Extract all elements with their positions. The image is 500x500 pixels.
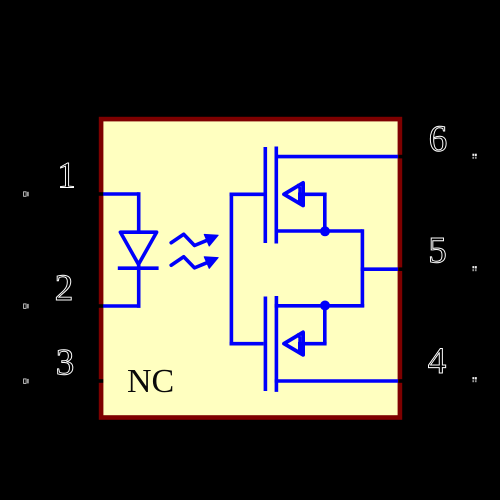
light emission arrow 2: [171, 257, 218, 269]
transistor Q2 channel plate: [275, 296, 279, 392]
wire Q2 drain: [275, 304, 365, 308]
pin3 stub black over border (NC): [97, 379, 103, 383]
transistor Q2 body arrowhead: [284, 332, 303, 355]
wire Q2 body shaft: [299, 342, 327, 346]
wire LED anode vertical: [137, 192, 141, 232]
wire Q1 body shaft: [299, 193, 327, 197]
pin1 stub black over border: [97, 192, 103, 196]
wire Q1 body vertical: [323, 193, 327, 232]
junction node Q2 drain: [320, 301, 330, 311]
wire mid vertical: [361, 229, 365, 307]
wire Q1 drain to pin6: [275, 155, 399, 159]
wire pin1 to LED anode: [103, 192, 139, 196]
pin3 end marker: [24, 379, 29, 384]
pin5 end marker: [472, 266, 476, 271]
wire Q1 source: [275, 229, 363, 233]
pin5 stub black over border: [398, 267, 404, 271]
pin4 end marker: [472, 377, 476, 382]
LED D1 cathode bar: [118, 266, 159, 270]
svg-text:4: 4: [428, 341, 447, 382]
svg-text:6: 6: [429, 119, 448, 160]
pin1 end marker: [24, 192, 29, 197]
pin6 stub black over border: [398, 155, 404, 159]
transistor Q1 channel plate: [274, 147, 278, 244]
transistor Q1 body arrowhead: [284, 183, 303, 206]
pin2 end marker: [24, 304, 29, 309]
svg-text:1: 1: [57, 156, 76, 197]
wire gate stub Q1: [230, 193, 264, 197]
transistor Q2 arrowhead tick: [297, 334, 300, 344]
svg-text:3: 3: [56, 343, 75, 384]
wire pin5: [361, 267, 398, 271]
pin2 stub black over border: [97, 304, 103, 308]
pin4 stub black over border: [398, 379, 404, 383]
LED D1 triangle: [120, 232, 156, 264]
pin6 end marker: [472, 154, 476, 159]
transistor Q1 arrowhead tick: [297, 185, 300, 195]
wire Q2 body vertical: [323, 304, 327, 344]
wire Q2 source to pin4: [275, 379, 398, 383]
transistor Q2 gate plate: [264, 297, 268, 392]
wire gate bus vertical: [230, 193, 234, 346]
wire gate stub Q2: [230, 342, 264, 346]
svg-text:2: 2: [55, 268, 74, 309]
wire pin2: [103, 304, 141, 308]
junction node Q1 source: [320, 226, 330, 236]
transistor Q1 gate plate: [263, 147, 267, 243]
component body outline U1: [101, 119, 400, 417]
svg-text:5: 5: [428, 231, 447, 272]
svg-text:NC: NC: [127, 363, 174, 400]
wire LED cathode vertical: [137, 264, 141, 308]
light emission arrow 1: [171, 234, 218, 246]
